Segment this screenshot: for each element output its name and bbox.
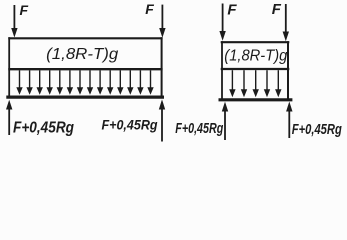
force arrow F left (left diagram) xyxy=(11,5,17,38)
reaction arrow up bottom-right (left diagram) xyxy=(159,99,165,141)
reaction arrow up bottom-right (right diagram) xyxy=(286,102,292,139)
beam outline left diagram: right edge xyxy=(161,37,163,97)
beam outline right diagram: top chord xyxy=(221,41,290,43)
reaction arrow up bottom-left (left diagram) xyxy=(6,100,12,135)
force arrow F right (right diagram) xyxy=(283,4,289,41)
svg-text:F: F xyxy=(20,2,29,18)
svg-text:F: F xyxy=(272,1,282,18)
beam outline right diagram: left edge xyxy=(221,41,223,100)
svg-text:(1,8R-T)g: (1,8R-T)g xyxy=(224,48,287,65)
svg-text:(1,8R-T)g: (1,8R-T)g xyxy=(46,46,118,63)
force arrow F right (left diagram) xyxy=(159,5,165,38)
beam outline left diagram: left edge xyxy=(8,37,10,97)
force arrow F left (right diagram) xyxy=(219,4,225,41)
svg-text:F+0,45Rg: F+0,45Rg xyxy=(102,117,158,133)
beam mid line (top of distributed load band) right diagram xyxy=(221,68,290,70)
svg-text:F+0,45Rg: F+0,45Rg xyxy=(175,120,223,137)
svg-text:F: F xyxy=(227,1,237,18)
distributed load arrows left diagram xyxy=(16,70,153,94)
svg-text:F+0,45Rg: F+0,45Rg xyxy=(13,120,74,137)
reaction arrow up bottom-left (right diagram) xyxy=(222,102,228,140)
svg-text:F+0,45Rg: F+0,45Rg xyxy=(292,121,342,138)
beam outline right diagram: right edge xyxy=(287,41,289,100)
distributed load arrows right diagram xyxy=(229,70,281,97)
svg-text:F: F xyxy=(145,1,154,17)
base thick line right diagram xyxy=(219,98,293,101)
base thick line left diagram xyxy=(6,95,164,98)
beam outline left diagram: top chord xyxy=(8,37,162,39)
beam mid line (top of distributed load band) left diagram xyxy=(8,68,162,70)
